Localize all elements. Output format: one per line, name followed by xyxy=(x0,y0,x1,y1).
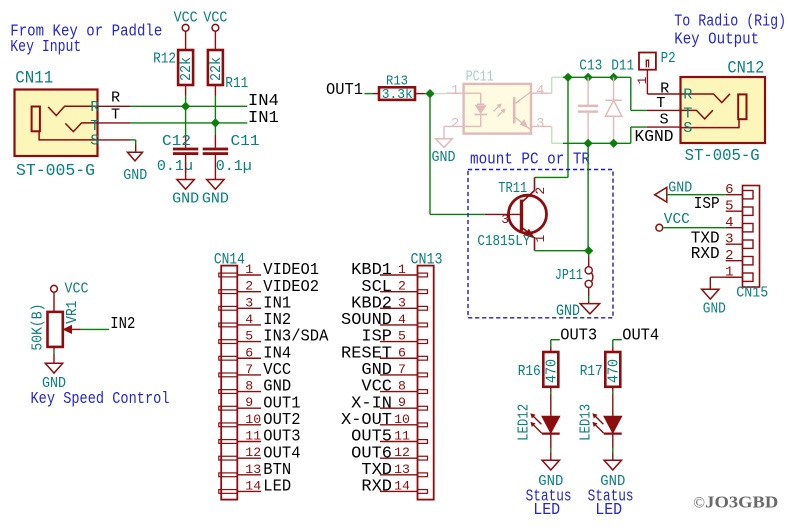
svg-text:VCC: VCC xyxy=(664,210,690,228)
pin 9 of CN14: OUT1 xyxy=(245,393,300,412)
svg-text:14: 14 xyxy=(394,478,410,493)
transistor TR11 C1815LY xyxy=(509,177,547,250)
svg-text:S: S xyxy=(683,119,692,137)
svg-text:LED12: LED12 xyxy=(514,404,532,441)
wire VCC to R11 xyxy=(214,31,216,50)
svg-text:2: 2 xyxy=(725,248,733,264)
LED LED12 xyxy=(531,414,560,434)
wire KGND bottom line xyxy=(563,142,631,144)
junction emitter / JP11 xyxy=(584,246,593,255)
svg-text:R17: R17 xyxy=(580,362,603,380)
svg-text:5: 5 xyxy=(725,198,733,214)
svg-text:Key Speed Control: Key Speed Control xyxy=(31,390,170,409)
svg-text:0.1µ: 0.1µ xyxy=(216,157,252,175)
wire KGND line down to emitter junction xyxy=(587,143,589,250)
node OUT3 xyxy=(560,325,597,344)
wire net IN4 xyxy=(130,105,247,107)
svg-text:T: T xyxy=(111,106,120,124)
svg-text:R: R xyxy=(683,86,692,104)
wire VR1 wiper to IN2 xyxy=(81,328,109,330)
connector CN11 label xyxy=(15,69,53,89)
capacitor C12 0.1u xyxy=(157,132,198,175)
pin 11 of CN13: OUT5 xyxy=(351,427,410,446)
svg-text:IN1: IN1 xyxy=(248,108,279,127)
node OUT4 xyxy=(622,325,659,344)
pin 2 of CN13: SCL xyxy=(361,277,406,296)
svg-text:ISP: ISP xyxy=(694,194,720,213)
value 50K(B) of VR1 xyxy=(29,304,47,351)
svg-text:4: 4 xyxy=(398,312,406,327)
wire key line down to T pin xyxy=(631,77,682,110)
resistor R12 22k xyxy=(177,50,195,85)
svg-text:5: 5 xyxy=(245,329,253,344)
svg-text:C12: C12 xyxy=(162,132,191,150)
pin 7 of CN14: VCC xyxy=(245,360,291,379)
svg-text:6: 6 xyxy=(725,182,733,198)
svg-text:GND: GND xyxy=(556,302,580,320)
ground below CN11 S pin xyxy=(123,152,147,184)
node S of CN12 xyxy=(660,111,669,129)
label VR1 xyxy=(63,301,81,324)
pin 8 of CN13: VCC xyxy=(361,377,406,396)
note: Key Speed Control xyxy=(31,390,170,409)
svg-text:3.3k: 3.3k xyxy=(382,87,413,103)
wire LED13 to ground xyxy=(612,434,614,461)
svg-text:R16: R16 xyxy=(518,362,541,380)
resistor R17 470 xyxy=(604,352,622,387)
svg-text:3: 3 xyxy=(398,295,406,310)
svg-text:Key Output: Key Output xyxy=(674,31,759,50)
label R11 xyxy=(225,74,248,92)
svg-text:R13: R13 xyxy=(386,73,408,89)
svg-text:JP11: JP11 xyxy=(555,266,583,284)
svg-text:11: 11 xyxy=(245,429,261,444)
svg-text:GND: GND xyxy=(668,179,692,197)
svg-text:GND: GND xyxy=(172,190,199,208)
diode D11 (not mounted, ghost) xyxy=(605,57,634,144)
connector CN11 value ST-005-G xyxy=(16,162,95,181)
svg-text:IN2: IN2 xyxy=(110,314,135,333)
svg-text:LED: LED xyxy=(533,501,560,520)
pin 1 of CN14: VIDEO1 xyxy=(245,260,319,279)
svg-text:R: R xyxy=(111,89,120,107)
node OUT1 xyxy=(326,80,363,99)
svg-text:11: 11 xyxy=(394,429,410,444)
wire VR1 to ground xyxy=(53,347,55,363)
svg-text:1: 1 xyxy=(533,235,548,243)
svg-text:LED: LED xyxy=(595,501,622,520)
svg-text:8: 8 xyxy=(245,379,253,394)
svg-text:10: 10 xyxy=(245,412,261,427)
svg-text:GND: GND xyxy=(123,166,147,184)
wire key net top line xyxy=(563,76,631,78)
node RXD xyxy=(691,244,720,263)
supply VCC for CN15 pin 4 xyxy=(656,210,690,231)
svg-text:50K(B): 50K(B) xyxy=(29,304,47,351)
pin 5 of CN13: ISP xyxy=(361,327,406,346)
svg-text:OUT3: OUT3 xyxy=(560,325,597,344)
svg-text:22k: 22k xyxy=(207,57,225,81)
svg-text:22k: 22k xyxy=(177,57,195,81)
svg-text:7: 7 xyxy=(398,362,406,377)
pin 14 of CN14: LED xyxy=(245,477,291,496)
svg-text:5: 5 xyxy=(398,329,406,344)
svg-text:3: 3 xyxy=(245,295,253,310)
LED LED13 xyxy=(593,414,622,434)
jumper JP11 xyxy=(555,266,593,288)
pin 4 of CN14: IN2 xyxy=(245,310,291,329)
wire R pin of CN11 xyxy=(98,105,131,107)
ground below LED13 xyxy=(600,460,625,490)
svg-text:8: 8 xyxy=(398,379,406,394)
svg-text:C1815LY: C1815LY xyxy=(477,232,530,250)
svg-text:LED: LED xyxy=(263,477,291,496)
svg-text:GND: GND xyxy=(432,148,456,166)
potentiometer VR1 50K(B) xyxy=(48,312,81,347)
wire C12 to ground xyxy=(185,155,187,180)
junction R11/C11 on IN1 xyxy=(211,118,220,127)
svg-text:4: 4 xyxy=(245,312,253,327)
pin 13 of CN14: BTN xyxy=(245,460,291,479)
pin 1 of CN13: KBD1 xyxy=(351,260,406,279)
node IN4 xyxy=(248,91,279,110)
pin 14 of CN13: RXD xyxy=(361,477,410,496)
label LED13 xyxy=(576,404,594,441)
wire VCC to CN15 pin 4 xyxy=(663,227,726,229)
svg-text:2: 2 xyxy=(245,279,253,294)
wire key line down to TR11 collector xyxy=(535,77,569,177)
node R xyxy=(111,89,120,107)
supply VCC for R11 xyxy=(203,9,227,32)
pin 3 of CN14: IN1 xyxy=(245,293,291,312)
wire T pin of CN11 xyxy=(98,122,131,124)
ground left of CN15 pin 6 xyxy=(655,179,693,203)
svg-text:LED13: LED13 xyxy=(576,404,594,441)
svg-text:OUT1: OUT1 xyxy=(326,80,363,99)
svg-text:D11: D11 xyxy=(611,57,634,75)
svg-text:Key Input: Key Input xyxy=(10,38,81,57)
svg-text:2: 2 xyxy=(533,187,548,195)
svg-text:GND: GND xyxy=(202,190,229,208)
pin 4 of CN13: SOUND xyxy=(341,310,406,329)
svg-text:13: 13 xyxy=(245,462,261,477)
connector CN13 label xyxy=(411,250,443,268)
svg-text:OUT4: OUT4 xyxy=(622,325,659,344)
svg-text:RXD: RXD xyxy=(691,244,720,263)
connector CN11 (phone jack ST-005-G) xyxy=(15,90,100,157)
note: To Radio (Rig) / Key Output xyxy=(674,13,786,50)
wire C11 to ground xyxy=(214,155,216,180)
pin 3 of CN13: KBD2 xyxy=(351,293,406,312)
junction C13 bottom xyxy=(584,139,593,148)
resistor R16 470 xyxy=(542,352,560,387)
label TR11 xyxy=(498,179,527,197)
svg-text:1: 1 xyxy=(245,262,253,277)
svg-text:12: 12 xyxy=(394,445,410,460)
connector CN14 label xyxy=(214,250,245,268)
label LED12 xyxy=(514,404,532,441)
wire junction down to TR11 base xyxy=(430,94,485,215)
wire R12 to net IN4 xyxy=(185,85,187,106)
junction D11 top xyxy=(609,73,618,82)
connector CN15 header xyxy=(726,186,760,288)
connector CN12 value ST-005-G xyxy=(685,147,760,166)
label R17 xyxy=(580,362,603,380)
svg-text:CN15: CN15 xyxy=(736,283,768,301)
wire OUT4 to R17 xyxy=(613,340,622,352)
wire LED12 to ground xyxy=(550,434,552,461)
svg-text:ST-005-G: ST-005-G xyxy=(16,162,95,181)
wire R13 to junction xyxy=(415,93,430,95)
ghost wire PC11 pin3 to KGND line xyxy=(552,126,563,143)
optocoupler PC11 (not mounted, ghost) xyxy=(447,68,552,134)
node T of CN12 xyxy=(656,94,665,112)
junction key line / TR11 collector drop xyxy=(563,73,572,82)
wire TR11 emitter to KGND junction xyxy=(535,250,589,252)
svg-text:©: © xyxy=(693,495,705,512)
svg-text:R12: R12 xyxy=(153,50,176,68)
ground below PC11 pin2 xyxy=(432,139,456,166)
ground below LED12 xyxy=(538,460,563,490)
svg-text:S: S xyxy=(660,111,669,129)
wire VCC to R12 xyxy=(185,31,187,50)
svg-text:9: 9 xyxy=(245,395,253,410)
svg-text:14: 14 xyxy=(245,478,261,493)
svg-text:470: 470 xyxy=(604,359,622,383)
svg-text:To Radio (Rig): To Radio (Rig) xyxy=(674,13,786,32)
svg-text:6: 6 xyxy=(245,345,253,360)
junction C13 top xyxy=(584,73,593,82)
svg-text:13: 13 xyxy=(394,462,410,477)
svg-text:3: 3 xyxy=(725,231,733,247)
connector CN12 label xyxy=(727,59,764,79)
svg-text:2: 2 xyxy=(451,117,459,132)
pin 6 of CN13: RESET xyxy=(341,343,406,362)
node KGND xyxy=(635,127,674,146)
value C1815LY xyxy=(477,232,530,250)
pin 2 of TR11 xyxy=(533,187,548,195)
svg-text:470: 470 xyxy=(542,359,560,383)
node ISP xyxy=(694,194,720,213)
pin 3 of TR11 xyxy=(501,212,509,227)
resistor R13 3.3k xyxy=(379,73,415,103)
pin 1 of TR11 xyxy=(533,235,548,243)
svg-text:C13: C13 xyxy=(579,57,602,75)
pin 13 of CN13: TXD xyxy=(361,460,410,479)
svg-text:C11: C11 xyxy=(231,132,260,150)
node R of CN12 xyxy=(660,80,669,98)
svg-text:S: S xyxy=(90,132,99,150)
note: Status LED (LED12) xyxy=(526,487,572,520)
wire OUT3 to R16 xyxy=(551,340,560,352)
connector CN13 header body xyxy=(380,266,434,500)
node TXD xyxy=(691,228,720,247)
svg-text:mount PC or TR: mount PC or TR xyxy=(470,151,590,170)
ghost wire PC11 pin1 to OUT1 junction xyxy=(434,93,447,95)
wire JP11 to ground xyxy=(588,288,590,304)
junction D11 bottom xyxy=(609,139,618,148)
junction R12/C12 on IN4 xyxy=(181,102,190,111)
pin 10 of CN13: X-OUT xyxy=(341,410,410,429)
dashed option box xyxy=(468,170,613,318)
svg-text:GND: GND xyxy=(703,299,726,317)
pin 8 of CN14: GND xyxy=(245,377,291,396)
junction OUT1 net xyxy=(425,89,434,98)
svg-text:3: 3 xyxy=(536,117,544,132)
wire TR11 base pin xyxy=(485,213,522,215)
resistor R11 22k xyxy=(207,50,225,85)
svg-text:9: 9 xyxy=(398,395,406,410)
svg-text:RXD: RXD xyxy=(361,477,392,496)
svg-text:7: 7 xyxy=(245,362,253,377)
connector P2 xyxy=(639,49,676,70)
connector CN12 (phone jack ST-005-G) xyxy=(681,77,766,143)
wire net IN1 xyxy=(130,122,247,124)
svg-text:KGND: KGND xyxy=(635,127,674,146)
ghost wire PC11 pin2 to ground xyxy=(444,126,447,138)
ghost wire PC11 pin4 to key line xyxy=(552,77,563,93)
svg-text:1: 1 xyxy=(398,262,406,277)
wire KGND up to S pin xyxy=(631,127,682,143)
svg-text:4: 4 xyxy=(725,215,733,231)
svg-text:1: 1 xyxy=(451,84,459,99)
svg-text:R: R xyxy=(660,80,669,98)
wire junction to JP11 xyxy=(588,251,590,267)
supply VCC for VR1 xyxy=(51,280,89,298)
svg-text:JO3GBD: JO3GBD xyxy=(705,493,778,512)
wire IN1 down to C11 xyxy=(214,123,216,148)
svg-text:VCC: VCC xyxy=(65,280,89,298)
capacitor C11 0.1u xyxy=(203,132,260,175)
svg-text:P2: P2 xyxy=(661,49,676,67)
svg-text:R11: R11 xyxy=(225,74,248,92)
pin 11 of CN14: OUT3 xyxy=(245,427,300,446)
wire OUT1 to R13 xyxy=(365,93,380,95)
pin 1 of P2 xyxy=(635,76,650,84)
wire VCC to VR1 xyxy=(53,292,55,312)
note: mount PC or TR xyxy=(470,151,590,170)
svg-text:2: 2 xyxy=(398,279,406,294)
capacitor C13 (not mounted, ghost) xyxy=(578,57,602,144)
wire R17 to LED13 xyxy=(612,387,614,417)
wire IN4 down to C12 xyxy=(185,106,187,147)
svg-text:ST-005-G: ST-005-G xyxy=(685,147,760,166)
ground below C12 xyxy=(172,180,199,208)
wire R16 to LED12 xyxy=(550,387,552,417)
svg-text:1: 1 xyxy=(725,264,733,280)
pin 12 of CN14: OUT4 xyxy=(245,443,300,462)
pin 6 of CN14: IN4 xyxy=(245,343,291,362)
pin 7 of CN13: GND xyxy=(361,360,406,379)
ground below CN15 pin 1 xyxy=(702,289,726,317)
connector CN15 label xyxy=(736,283,768,301)
node IN1 xyxy=(248,108,279,127)
pin 2 of CN14: VIDEO2 xyxy=(245,277,319,296)
ground below C11 xyxy=(202,180,229,208)
svg-text:CN12: CN12 xyxy=(727,59,764,79)
svg-text:VR1: VR1 xyxy=(63,301,81,324)
pin 9 of CN13: X-IN xyxy=(351,393,406,412)
svg-text:6: 6 xyxy=(398,345,406,360)
label R12 xyxy=(153,50,176,68)
svg-text:1: 1 xyxy=(635,76,650,84)
ground below VR1 xyxy=(42,363,66,392)
supply VCC for R12 xyxy=(174,9,198,32)
svg-text:10: 10 xyxy=(394,412,410,427)
wire S pin of CN11 to ground xyxy=(98,140,136,152)
note: Status LED (LED13) xyxy=(588,487,634,520)
wire CN15 pin 1 to ground xyxy=(710,277,742,289)
svg-text:CN11: CN11 xyxy=(15,69,53,89)
wire P2 pin 1 to R pin of CN12 xyxy=(647,70,682,94)
pin 5 of CN14: IN3/SDA xyxy=(245,327,328,346)
pin numbers CN15 xyxy=(725,182,733,281)
ground below JP11 xyxy=(556,302,600,320)
note: From Key or Paddle / Key Input xyxy=(10,23,162,58)
copyright JO3GBD xyxy=(693,493,778,512)
pin 12 of CN13: OUT6 xyxy=(351,443,410,462)
pin 10 of CN14: OUT2 xyxy=(245,410,300,429)
connector CN14 header body xyxy=(219,266,261,500)
wire GND to CN15 pin 6 xyxy=(667,194,726,196)
wire R11 to net IN1 xyxy=(214,85,216,123)
svg-text:4: 4 xyxy=(536,84,544,99)
label R16 xyxy=(518,362,541,380)
svg-text:0.1µ: 0.1µ xyxy=(157,157,193,175)
node IN2 xyxy=(110,314,135,333)
node T xyxy=(111,106,120,124)
svg-text:TR11: TR11 xyxy=(498,179,527,197)
svg-text:12: 12 xyxy=(245,445,261,460)
